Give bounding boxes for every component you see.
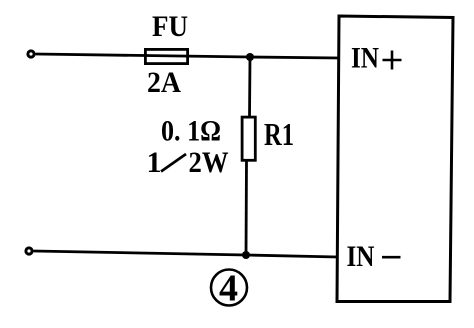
wire (bottom: terminal to node B): [34, 251, 247, 255]
wire (node A down to R1): [248, 57, 251, 117]
pin sign + (horizontal bar): [383, 59, 402, 62]
fuse FU: [145, 49, 187, 63]
wire (top: node A to box IN+): [250, 57, 340, 58]
terminal (top-left open circle): [28, 51, 34, 57]
svg-text:R1: R1: [264, 116, 294, 152]
svg-text:FU: FU: [152, 10, 188, 43]
pin sign + (vertical bar): [391, 51, 394, 70]
wire (bottom: node B to box IN-): [246, 255, 338, 257]
svg-text:2A: 2A: [147, 66, 181, 99]
wire (top: terminal to node A): [36, 54, 251, 57]
terminal (bottom-left open circle): [26, 248, 32, 254]
node number circle: [211, 270, 247, 306]
node B (bottom junction dot): [242, 251, 250, 259]
svg-text:4: 4: [219, 268, 238, 310]
box U1 (device with IN+ / IN- pins): [337, 16, 453, 302]
svg-text:1: 1: [147, 146, 162, 179]
resistor R1: [242, 117, 255, 160]
wire (R1 down to node B): [245, 160, 248, 255]
svg-text:IN: IN: [351, 42, 379, 75]
pin sign - (minus bar): [382, 256, 401, 259]
svg-text:0. 1Ω: 0. 1Ω: [161, 115, 221, 148]
node A (top junction dot): [246, 53, 254, 61]
svg-text:2W: 2W: [189, 146, 229, 179]
label 1/2W slash: [161, 154, 186, 172]
svg-text:IN: IN: [347, 240, 375, 273]
